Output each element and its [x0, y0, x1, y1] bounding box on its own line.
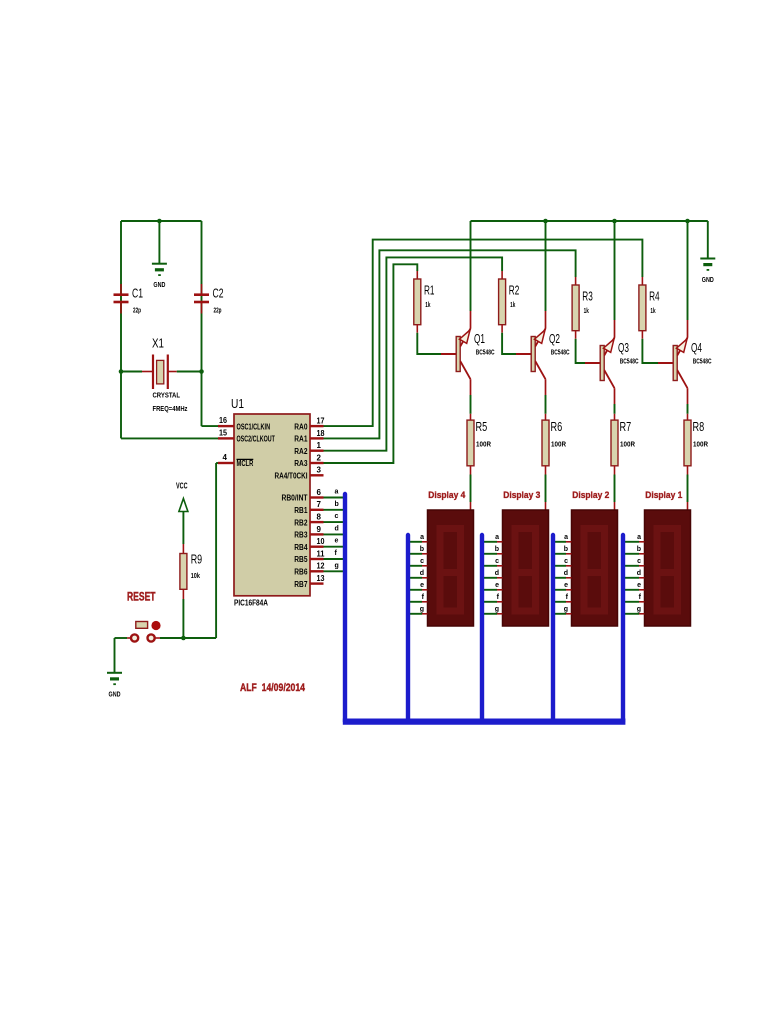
svg-text:g: g [637, 606, 641, 613]
svg-text:b: b [335, 501, 339, 508]
svg-text:c: c [420, 558, 424, 565]
svg-text:10k: 10k [191, 573, 200, 580]
svg-text:1k: 1k [425, 302, 430, 309]
svg-text:b: b [637, 546, 641, 553]
svg-text:VCC: VCC [176, 482, 188, 491]
svg-text:c: c [637, 558, 641, 565]
svg-text:BC548C: BC548C [620, 359, 639, 366]
svg-text:1k: 1k [510, 302, 515, 309]
svg-text:a: a [420, 534, 424, 541]
svg-text:1k: 1k [650, 308, 655, 315]
svg-text:Q4: Q4 [691, 341, 702, 355]
svg-text:10: 10 [317, 537, 325, 546]
svg-text:GND: GND [153, 280, 165, 289]
svg-text:c: c [495, 558, 499, 565]
svg-text:RB3: RB3 [294, 531, 308, 540]
svg-text:BC548C: BC548C [693, 359, 712, 366]
svg-text:RA4/T0CKI: RA4/T0CKI [275, 472, 308, 481]
svg-text:C1: C1 [132, 287, 143, 301]
svg-text:22p: 22p [214, 308, 222, 315]
svg-text:R2: R2 [509, 283, 520, 297]
svg-text:15: 15 [219, 429, 227, 438]
svg-text:16: 16 [219, 416, 227, 425]
svg-text:Display 4: Display 4 [428, 490, 466, 501]
svg-text:e: e [335, 538, 339, 545]
svg-text:e: e [495, 582, 499, 589]
svg-text:b: b [564, 546, 568, 553]
svg-text:GND: GND [702, 275, 714, 284]
svg-text:ALF 14/09/2014: ALF 14/09/2014 [240, 682, 306, 694]
svg-text:RB0/INT: RB0/INT [282, 494, 308, 503]
svg-text:BC548C: BC548C [476, 350, 495, 357]
svg-text:RA2: RA2 [294, 447, 308, 456]
svg-text:OSC1/CLKIN: OSC1/CLKIN [237, 422, 271, 431]
svg-text:3: 3 [317, 466, 322, 475]
svg-text:R8: R8 [693, 420, 705, 434]
svg-text:RA0: RA0 [294, 422, 308, 431]
svg-text:100R: 100R [620, 440, 635, 449]
svg-text:RESET: RESET [127, 590, 156, 604]
svg-text:RB5: RB5 [294, 555, 308, 564]
svg-text:R5: R5 [476, 420, 488, 434]
svg-text:Display 3: Display 3 [503, 490, 540, 501]
svg-text:e: e [637, 582, 641, 589]
svg-text:R6: R6 [551, 420, 563, 434]
svg-text:c: c [335, 513, 339, 520]
svg-text:R1: R1 [424, 283, 435, 297]
svg-text:GND: GND [109, 689, 121, 698]
svg-text:U1: U1 [231, 397, 244, 411]
svg-text:Q1: Q1 [474, 332, 485, 346]
svg-text:Display 2: Display 2 [572, 490, 609, 501]
svg-text:RB4: RB4 [294, 543, 308, 552]
svg-text:2: 2 [317, 453, 322, 462]
svg-text:g: g [564, 606, 568, 613]
svg-text:MCLR: MCLR [237, 459, 254, 468]
svg-text:R4: R4 [649, 289, 660, 303]
svg-text:1: 1 [317, 441, 322, 450]
svg-text:d: d [564, 570, 568, 577]
svg-text:a: a [335, 489, 339, 496]
svg-text:100R: 100R [476, 440, 491, 449]
svg-text:X1: X1 [152, 337, 164, 351]
svg-text:RB6: RB6 [294, 568, 308, 577]
svg-text:a: a [495, 534, 499, 541]
svg-text:22p: 22p [133, 308, 141, 315]
svg-text:b: b [420, 546, 424, 553]
svg-text:d: d [420, 570, 424, 577]
svg-text:RB7: RB7 [294, 580, 308, 589]
svg-text:g: g [495, 606, 499, 613]
svg-text:18: 18 [317, 429, 325, 438]
svg-text:R7: R7 [620, 420, 632, 434]
svg-text:17: 17 [317, 417, 325, 426]
svg-text:7: 7 [317, 500, 322, 509]
svg-text:RB2: RB2 [294, 518, 308, 527]
svg-text:a: a [564, 534, 568, 541]
svg-text:FREQ=4MHz: FREQ=4MHz [153, 404, 188, 413]
svg-text:C2: C2 [213, 287, 224, 301]
svg-text:RA1: RA1 [294, 435, 308, 444]
svg-text:8: 8 [317, 513, 322, 522]
svg-text:R3: R3 [582, 289, 593, 303]
svg-text:e: e [420, 582, 424, 589]
svg-text:Q2: Q2 [549, 332, 560, 346]
svg-text:g: g [420, 606, 424, 613]
svg-text:d: d [335, 525, 339, 532]
svg-text:11: 11 [317, 549, 326, 558]
svg-text:RA3: RA3 [294, 459, 308, 468]
svg-text:c: c [564, 558, 568, 565]
svg-text:e: e [564, 582, 568, 589]
svg-text:BC548C: BC548C [551, 350, 570, 357]
svg-text:a: a [637, 534, 641, 541]
svg-text:b: b [495, 546, 499, 553]
svg-text:1k: 1k [584, 308, 589, 315]
svg-text:OSC2/CLKOUT: OSC2/CLKOUT [237, 435, 275, 444]
svg-text:R9: R9 [191, 553, 202, 567]
svg-text:Display 1: Display 1 [645, 490, 683, 501]
svg-text:d: d [637, 570, 641, 577]
svg-text:PIC16F84A: PIC16F84A [234, 599, 268, 608]
svg-text:13: 13 [317, 574, 325, 583]
svg-text:RB1: RB1 [294, 506, 308, 515]
svg-text:100R: 100R [693, 440, 708, 449]
svg-text:Q3: Q3 [618, 341, 629, 355]
svg-text:9: 9 [317, 525, 322, 534]
svg-text:100R: 100R [551, 440, 566, 449]
svg-text:4: 4 [223, 453, 228, 462]
svg-text:g: g [335, 562, 339, 569]
svg-text:d: d [495, 570, 499, 577]
svg-text:6: 6 [317, 488, 322, 497]
svg-text:CRYSTAL: CRYSTAL [153, 390, 181, 399]
svg-text:12: 12 [317, 562, 325, 571]
